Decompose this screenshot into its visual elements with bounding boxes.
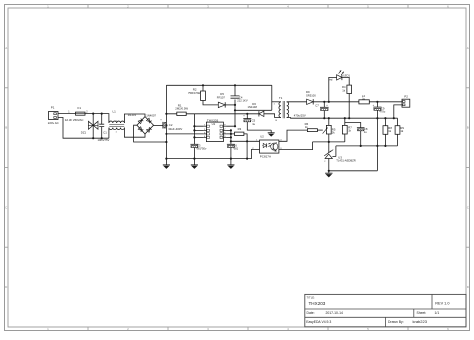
diode D5 (217, 92, 235, 107)
svg-text:75R/0.5W: 75R/0.5W (188, 91, 201, 95)
svg-text:Date:: Date: (307, 311, 315, 315)
svg-text:D5: D5 (220, 92, 224, 96)
capacitor C5 (243, 114, 271, 130)
node (323, 101, 330, 103)
wire (165, 85, 167, 158)
resistor R8 (383, 118, 392, 146)
svg-text:1N4007: 1N4007 (146, 113, 156, 117)
diode D6 (248, 102, 281, 118)
svg-text:DZ1: DZ1 (81, 130, 87, 134)
svg-text:EasyEDA V4.9.3: EasyEDA V4.9.3 (306, 320, 331, 324)
fuse F1 (65, 106, 89, 122)
resistor R6 (305, 122, 323, 132)
diode D9 (306, 90, 316, 104)
svg-text:P2: P2 (404, 94, 408, 98)
wire (279, 130, 308, 141)
shunt regulator U3 (324, 142, 356, 171)
ground (268, 130, 275, 137)
inductor L2 (359, 94, 402, 104)
svg-text:A: A (467, 46, 469, 50)
svg-text:222 1KV: 222 1KV (237, 99, 248, 103)
svg-text:1/1: 1/1 (435, 311, 440, 315)
capacitor C9 (373, 102, 386, 118)
svg-text:PC817A: PC817A (260, 154, 271, 158)
node (234, 125, 236, 127)
wire (235, 85, 272, 110)
inductor L1 (109, 109, 125, 133)
node (234, 104, 236, 112)
node (328, 141, 330, 143)
svg-text:C7: C7 (315, 103, 319, 107)
wire (58, 118, 109, 139)
wire (58, 113, 76, 115)
node (92, 113, 103, 140)
resistor R4 (342, 77, 352, 118)
wire (193, 114, 195, 145)
resistor R2 (188, 85, 218, 105)
connector P2 (402, 94, 410, 107)
capacitor C6 (227, 143, 239, 158)
resistor R3 (231, 127, 247, 159)
ground (325, 170, 332, 178)
svg-text:220v AC: 220v AC (48, 121, 59, 125)
svg-text:L1: L1 (113, 109, 117, 113)
svg-text:TL431-AEDBZR: TL431-AEDBZR (336, 158, 355, 162)
capacitor C1 (98, 114, 110, 142)
ground (227, 159, 234, 169)
wire (287, 117, 398, 120)
wire (194, 126, 203, 137)
svg-text:2017-10-14: 2017-10-14 (326, 311, 343, 315)
wire (313, 141, 345, 143)
title block (305, 294, 466, 326)
capacitor C2 (160, 119, 182, 131)
op-toisolator U2 (252, 135, 282, 159)
svg-text:681: 681 (234, 147, 239, 151)
svg-text:red: red (329, 78, 333, 82)
wire (166, 158, 247, 160)
node (230, 129, 248, 142)
node (193, 158, 248, 160)
connector P1 (48, 105, 59, 125)
svg-text:THX203: THX203 (309, 301, 326, 306)
wire (279, 142, 313, 150)
wire (336, 145, 398, 147)
wire (230, 130, 232, 144)
svg-text:470u: 470u (379, 110, 385, 114)
svg-text:Drawn By:: Drawn By: (388, 320, 404, 324)
svg-text:REV 1.0: REV 1.0 (435, 301, 449, 305)
svg-text:1u: 1u (252, 122, 255, 126)
svg-text:A: A (5, 46, 7, 50)
svg-text:P1: P1 (51, 105, 55, 109)
wire (194, 113, 259, 115)
varistor DZ1 (81, 114, 98, 139)
svg-text:SR5100: SR5100 (306, 93, 316, 97)
svg-text:B: B (467, 126, 469, 130)
node (360, 145, 387, 147)
wire (329, 118, 378, 171)
node (165, 113, 167, 160)
svg-text:C1: C1 (103, 130, 107, 134)
svg-text:1u: 1u (364, 130, 367, 134)
svg-text:470u/25V: 470u/25V (294, 113, 306, 117)
node (376, 101, 378, 103)
wire (154, 124, 163, 126)
wire (124, 114, 145, 123)
wire (313, 101, 359, 103)
svg-text:2M2/0.5W: 2M2/0.5W (175, 107, 188, 111)
capacitor C3 (190, 143, 207, 158)
wire (166, 133, 203, 135)
node (323, 117, 395, 119)
ground (163, 159, 170, 169)
svg-text:krab223: krab223 (413, 319, 428, 324)
wire (166, 84, 271, 86)
svg-text:F1: F1 (78, 106, 82, 110)
node (246, 113, 248, 115)
wire (134, 125, 167, 142)
svg-text:33uF-400V: 33uF-400V (168, 127, 182, 131)
LED LED1 (329, 70, 351, 101)
svg-text:10K/275V: 10K/275V (98, 138, 110, 142)
transformer T1 (272, 96, 289, 122)
svg-text:FR107: FR107 (217, 96, 226, 100)
resistor R7 (342, 118, 352, 142)
wire (226, 130, 231, 137)
svg-text:U1: U1 (212, 122, 216, 126)
wire (231, 140, 260, 142)
wire (247, 150, 259, 159)
svg-text:R3: R3 (238, 127, 242, 131)
bridge rectifier D1-D4 (128, 113, 157, 134)
node (202, 84, 236, 86)
potentiometer R5 (323, 118, 336, 142)
svg-text:1N4148: 1N4148 (248, 105, 258, 109)
svg-text:B: B (5, 126, 7, 130)
ground (191, 159, 198, 169)
op-amp U1 THX203 (204, 118, 227, 141)
wire (85, 114, 109, 123)
resistor R9 (395, 118, 404, 146)
wire (287, 101, 307, 103)
svg-text:3A 3F 250VAC: 3A 3F 250VAC (65, 118, 84, 122)
svg-text:TITLE:: TITLE: (307, 296, 316, 300)
svg-text:681*50v: 681*50v (197, 147, 208, 151)
svg-text:T1: T1 (279, 96, 283, 100)
svg-text:D1-D4: D1-D4 (128, 113, 137, 117)
capacitor C7 (294, 102, 329, 118)
resistor R1 (166, 103, 194, 115)
node (165, 125, 195, 138)
wire (394, 105, 402, 118)
wire (109, 128, 145, 139)
wire (226, 110, 235, 126)
svg-text:U2: U2 (260, 135, 264, 139)
capacitor C4 (231, 85, 248, 110)
svg-text:Sheet:: Sheet: (417, 311, 427, 315)
capacitor C8 (345, 123, 368, 146)
